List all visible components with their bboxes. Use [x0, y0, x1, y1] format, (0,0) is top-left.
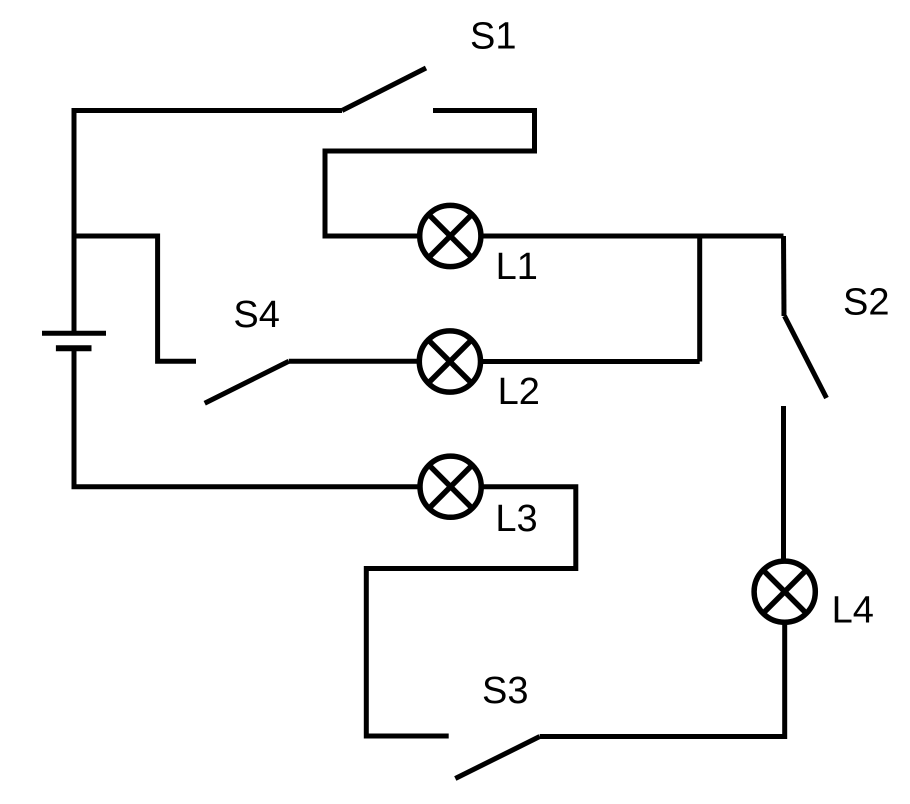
wire S4 right terminal to L2 left — [289, 359, 420, 364]
wire L1 right to S2 top terminal — [481, 234, 784, 239]
wire junction node down to L2 right wire — [697, 236, 702, 362]
wire L2 right to junction node — [481, 359, 700, 364]
wire S1 right terminal to L1 left — [325, 111, 535, 237]
svg-text:S4: S4 — [233, 294, 279, 336]
wire junction to S4 left terminal — [74, 236, 196, 361]
lamp L4 — [754, 561, 815, 622]
wire S3 left terminal to L3 right — [366, 487, 576, 736]
svg-text:L1: L1 — [496, 246, 538, 288]
switch S1 blade — [342, 68, 426, 111]
switch S2 top terminal wire — [781, 236, 787, 316]
battery negative plate — [56, 345, 92, 351]
wire L4 bottom to S3 right terminal — [540, 622, 785, 736]
wire battery positive to S1 left terminal — [74, 111, 342, 334]
battery positive plate — [42, 331, 106, 336]
lamp L2 — [419, 331, 480, 392]
svg-text:S1: S1 — [470, 16, 516, 58]
switch S3 blade — [455, 737, 539, 779]
wire L3 left to battery negative — [74, 351, 420, 487]
wire S2 bottom terminal to L4 top — [781, 406, 786, 560]
switch S2 blade — [785, 316, 827, 398]
svg-text:L3: L3 — [495, 498, 537, 540]
lamp L3 — [420, 456, 481, 517]
switch S4 blade — [205, 361, 289, 403]
svg-text:S3: S3 — [482, 670, 528, 712]
svg-text:S2: S2 — [843, 282, 889, 324]
svg-text:L2: L2 — [498, 371, 540, 413]
svg-text:L4: L4 — [832, 589, 874, 631]
lamp L1 — [420, 205, 481, 266]
